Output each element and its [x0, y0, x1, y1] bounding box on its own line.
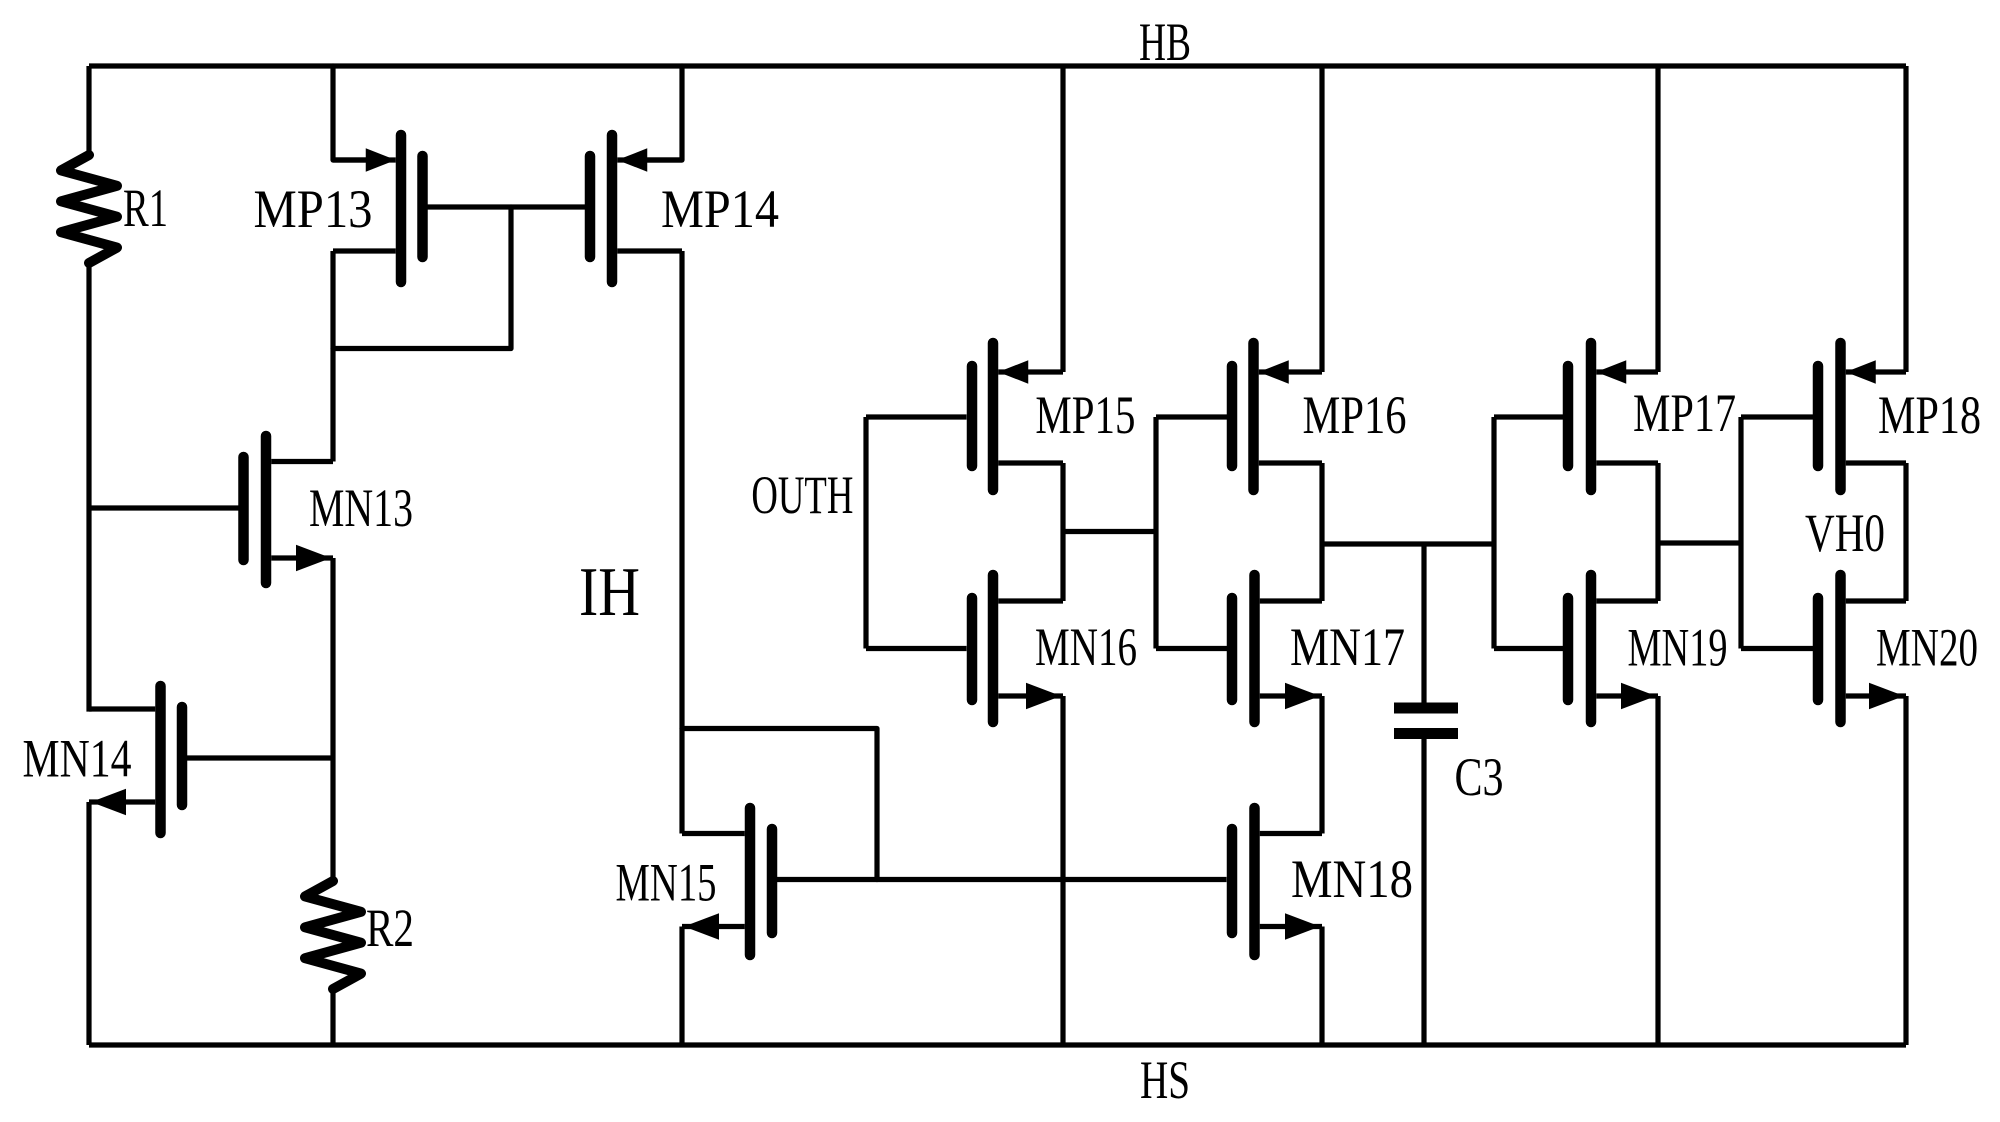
wire R2 bottom to HS rail — [330, 987, 335, 1045]
label MN15 — [616, 853, 717, 913]
transistor MN18 — [1232, 808, 1322, 955]
transistor MP16 — [1232, 343, 1322, 490]
wire HB rail down to MP16 source — [1319, 66, 1324, 372]
resistor R2 — [305, 881, 361, 989]
svg-text:R2: R2 — [366, 898, 414, 958]
wire stage3 output to stage4 gates — [1658, 540, 1741, 545]
wire MP13 drain down to MN13 drain — [330, 251, 335, 462]
wire MN16 source down to HS rail — [1060, 696, 1065, 1045]
net IH wire MP14 drain down to MN15 drain — [679, 251, 684, 834]
capacitor C3 — [1394, 708, 1458, 734]
transistor MP18 — [1818, 343, 1906, 490]
wire R1 bottom to MN13 gate and MN14 drain — [86, 261, 91, 712]
svg-text:MN16: MN16 — [1035, 617, 1137, 677]
svg-text:IH: IH — [579, 554, 640, 631]
svg-text:MN14: MN14 — [23, 729, 132, 789]
wire MN17 source down to MN18 drain — [1319, 696, 1324, 834]
net HS bottom power rail — [89, 1042, 1906, 1047]
wire MN19 source down to HS rail — [1655, 696, 1660, 1045]
svg-text:MP13: MP13 — [254, 179, 373, 239]
label MP14 — [661, 179, 779, 239]
transistor MP14 — [590, 135, 682, 282]
label MN13 — [309, 478, 413, 538]
wire MN20 source down to HS rail — [1903, 696, 1908, 1045]
wire MP16 gate line — [1156, 414, 1227, 419]
wire MN15 gate to MN18 gate — [777, 877, 1227, 882]
wire MN14 source down to HS rail — [86, 802, 91, 1045]
svg-text:MP17: MP17 — [1633, 383, 1736, 443]
wire MN15 source down to HS rail — [679, 927, 684, 1046]
net OUTH gate vertical of MP15 and MN16 — [863, 417, 868, 649]
wire MP18 gate line — [1741, 414, 1813, 419]
transistor MN14 — [89, 686, 182, 833]
label R2 — [366, 898, 414, 958]
svg-text:MP15: MP15 — [1035, 385, 1135, 445]
svg-text:C3: C3 — [1455, 747, 1504, 807]
wire stage3 gate vertical — [1491, 417, 1496, 649]
wire stage2 output to C3 and stage3 gates — [1322, 541, 1494, 546]
wire HB rail down to MP17 source — [1655, 66, 1660, 372]
label VH0 — [1805, 503, 1885, 563]
transistor MN15 — [682, 808, 772, 955]
transistor MP13 — [333, 135, 423, 282]
transistor MP15 — [972, 343, 1063, 490]
wire MN13 gate line — [89, 505, 239, 510]
label MN16 — [1035, 617, 1137, 677]
svg-text:MN20: MN20 — [1876, 618, 1978, 678]
svg-text:MP14: MP14 — [661, 179, 779, 239]
transistor MN16 — [972, 575, 1063, 722]
label MN17 — [1290, 617, 1405, 677]
label HB — [1139, 12, 1191, 72]
label MP18 — [1878, 385, 1981, 445]
wire MN14 gate line — [187, 755, 333, 760]
transistor MN13 — [244, 436, 334, 583]
svg-text:MN15: MN15 — [616, 853, 717, 913]
svg-text:VH0: VH0 — [1805, 503, 1885, 563]
label MN18 — [1291, 849, 1413, 909]
svg-text:HB: HB — [1139, 12, 1191, 72]
label HS — [1140, 1050, 1190, 1110]
svg-text:OUTH: OUTH — [751, 465, 853, 525]
svg-text:MN19: MN19 — [1628, 618, 1728, 678]
wire MN19 gate line — [1494, 646, 1563, 651]
wire stage2 output down to C3 top plate — [1421, 544, 1426, 703]
wire MN20 gate line — [1741, 646, 1813, 651]
wire MN17 gate line — [1156, 646, 1227, 651]
wire MP15 drain to MN16 drain — [1060, 463, 1065, 601]
wire stage4 gate vertical — [1738, 417, 1743, 649]
wire C3 bottom plate down to HS rail — [1421, 739, 1426, 1045]
label MP13 — [254, 179, 373, 239]
wire HB rail down to MP15 source — [1060, 66, 1065, 372]
wire MP17 gate line — [1494, 414, 1563, 419]
label MN20 — [1876, 618, 1978, 678]
net VH0 wire MP18 drain to MN20 drain — [1903, 463, 1908, 601]
wire MP13 gate-drain tie — [333, 207, 511, 349]
wire MN18 source down to HS rail — [1319, 927, 1324, 1046]
label MP15 — [1035, 385, 1135, 445]
svg-text:HS: HS — [1140, 1050, 1190, 1110]
svg-text:MP18: MP18 — [1878, 385, 1981, 445]
svg-text:R1: R1 — [123, 178, 168, 238]
wire HB rail down to MP14 source — [647, 66, 683, 160]
transistor MN20 — [1818, 575, 1906, 722]
wire MP13 gate to MP14 gate — [428, 204, 586, 209]
transistor MN17 — [1232, 575, 1322, 722]
wire MP16 drain to MN17 drain — [1319, 463, 1324, 601]
wire HB rail down to R1 top — [86, 66, 91, 157]
svg-text:MN18: MN18 — [1291, 849, 1413, 909]
wire HB rail down to MP18 source — [1903, 66, 1908, 372]
wire MN16 gate line — [866, 646, 967, 651]
wire stage1 output to stage2 gates — [1063, 529, 1156, 534]
transistor MP17 — [1568, 343, 1658, 490]
label R1 — [123, 178, 168, 238]
resistor R1 — [61, 155, 117, 263]
wire MN15 gate-drain tie — [682, 729, 877, 880]
wire stage2 gate vertical — [1153, 417, 1158, 649]
label MN14 — [23, 729, 132, 789]
label OUTH — [751, 465, 853, 525]
wire MP15 gate line — [866, 414, 967, 419]
net HB top power rail — [89, 63, 1906, 68]
svg-text:MN17: MN17 — [1290, 617, 1405, 677]
label C3 — [1455, 747, 1504, 807]
wire HB rail down to MP13 source — [333, 66, 368, 160]
wire MP17 drain to MN19 drain — [1655, 463, 1660, 601]
svg-text:MN13: MN13 — [309, 478, 413, 538]
label MN19 — [1628, 618, 1728, 678]
label MP16 — [1303, 385, 1407, 445]
wire MN13 source down to MN14 gate and R2 — [330, 558, 335, 883]
label MP17 — [1633, 383, 1736, 443]
label IH — [579, 554, 640, 631]
svg-text:MP16: MP16 — [1303, 385, 1407, 445]
transistor MN19 — [1568, 575, 1658, 722]
